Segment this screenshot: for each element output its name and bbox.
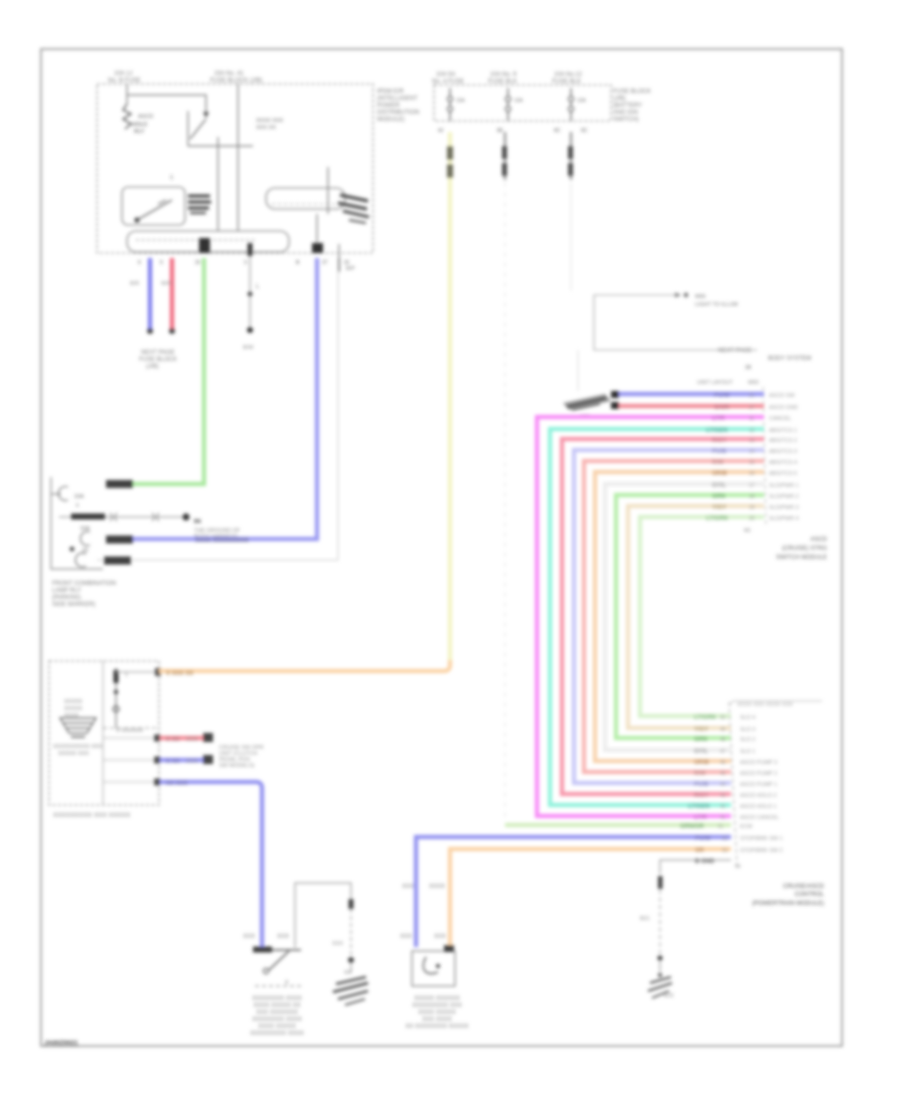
switch arm	[187, 111, 189, 146]
loop 8 green	[616, 495, 764, 738]
svg-text:6: 6	[138, 260, 141, 266]
actuator rounded box	[266, 188, 345, 209]
fuse 3 gray wire	[570, 132, 572, 180]
pump switch rounded box	[122, 187, 185, 225]
svg-text:(BATTERY: (BATTERY	[613, 103, 642, 109]
svg-text:OR: OR	[695, 848, 705, 854]
lower orange row to bottom switch	[450, 849, 731, 947]
stop lamp switch bar	[255, 949, 301, 951]
svg-text:XXXXXXXXX XXXX: XXXXXXXXX XXXX	[250, 1031, 304, 1037]
svg-text:XXX: XXX	[400, 934, 412, 940]
lower extra green row	[505, 823, 731, 827]
svg-text:10A: 10A	[74, 494, 84, 500]
svg-text:PU/B: PU/B	[694, 782, 709, 788]
svg-text:(CRUISE) STRG: (CRUISE) STRG	[782, 546, 827, 552]
svg-text:52: 52	[722, 836, 728, 842]
svg-text:XXX: XXX	[332, 941, 343, 947]
svg-text:17: 17	[749, 483, 755, 489]
svg-text:XXXXXXXX XXXX: XXXXXXXX XXXX	[252, 1017, 302, 1023]
svg-text:XXX: XXX	[186, 737, 198, 743]
svg-text:LT/GRN: LT/GRN	[706, 516, 728, 522]
yellow wire down	[448, 132, 452, 663]
svg-text:50: 50	[720, 715, 726, 721]
dashed box outline	[97, 84, 373, 253]
svg-text:ASCD PUMP 2: ASCD PUMP 2	[740, 771, 777, 777]
loop 10 palegreen	[640, 517, 764, 716]
svg-text:ASCD HOLD 1: ASCD HOLD 1	[740, 804, 777, 810]
svg-text:5C: 5C	[581, 128, 588, 134]
svg-text:SLD/PWR 1: SLD/PWR 1	[769, 483, 799, 489]
red stub wire	[160, 736, 205, 740]
svg-text:(J/B): (J/B)	[613, 96, 626, 102]
svg-text:27: 27	[322, 260, 328, 266]
periwinkle wire	[107, 258, 317, 539]
svg-text:XXXX XXX XXXX XXX: XXXX XXX XXXX XXX	[737, 702, 793, 708]
svg-text:OR/B: OR/B	[694, 760, 710, 766]
svg-text:18: 18	[749, 494, 755, 500]
hook connector green	[58, 487, 68, 501]
svg-text:GRN: GRN	[712, 494, 725, 500]
svg-text:FUSE BLK: FUSE BLK	[488, 79, 517, 85]
green wire from relay box	[107, 258, 204, 484]
svg-text:RLY: RLY	[134, 129, 145, 135]
svg-text:SLD 4: SLD 4	[740, 715, 755, 721]
blue stub wire	[160, 758, 205, 762]
svg-text:6E: 6E	[497, 128, 504, 134]
row blue u394	[619, 392, 764, 396]
svg-text:XXXXX XXX: XXXXX XXX	[58, 751, 89, 757]
svg-text:OR/B: OR/B	[712, 471, 728, 477]
svg-text:AND IGN: AND IGN	[613, 110, 638, 116]
svg-text:42: 42	[720, 804, 726, 810]
right interior switch	[115, 668, 117, 728]
svg-text:B/P: B/P	[346, 266, 355, 272]
fuse symbol 2	[507, 88, 509, 96]
svg-text:XXXX XXX: XXXX XXX	[256, 118, 284, 124]
ground symbol bottom right	[658, 973, 662, 977]
svg-text:XX XXXXXXXX XXXXX: XX XXXXXXXX XXXXX	[405, 1024, 468, 1030]
svg-text:POWER: POWER	[377, 103, 400, 109]
svg-text:46: 46	[720, 760, 726, 766]
svg-text:20: 20	[82, 548, 88, 554]
svg-text:53: 53	[722, 848, 728, 854]
svg-text:XX: XX	[344, 970, 351, 976]
svg-text:PU/W: PU/W	[695, 836, 711, 842]
svg-text:L: L	[256, 284, 259, 290]
dashed fuse box	[434, 85, 611, 121]
svg-text:B21: B21	[640, 916, 650, 922]
svg-text:PU/W: PU/W	[714, 393, 730, 399]
svg-text:Y/GY: Y/GY	[712, 505, 726, 511]
svg-text:M1: M1	[744, 528, 751, 534]
svg-text:UNIT LAYOUT: UNIT LAYOUT	[697, 380, 733, 386]
svg-text:ECM: ECM	[740, 824, 753, 830]
faint link down to connector	[577, 350, 579, 391]
svg-text:XXXXXXXXX XXX XXXXX: XXXXXXXXX XXX XXXXX	[53, 812, 131, 819]
svg-text:XX XXX: XX XXX	[166, 781, 188, 787]
svg-text:SLD/PWR 3: SLD/PWR 3	[769, 505, 799, 511]
svg-text:XXXX: XXXX	[429, 884, 445, 890]
wire from fuse down to coil	[126, 84, 128, 104]
svg-text:ASCD PUMP 3: ASCD PUMP 3	[740, 760, 777, 766]
svg-text:ASCD: ASCD	[138, 114, 153, 120]
svg-text:NEXT PAGE: NEXT PAGE	[141, 350, 175, 356]
svg-text:No. 4 FUSE: No. 4 FUSE	[432, 79, 464, 85]
svg-text:STOP/BRK SW 2: STOP/BRK SW 2	[740, 848, 783, 854]
svg-text:(INTELLIGENT: (INTELLIGENT	[377, 96, 418, 102]
dashed internal row	[103, 727, 156, 729]
svg-text:R/GY: R/GY	[712, 438, 727, 444]
svg-text:10A: 10A	[80, 526, 90, 532]
svg-text:X XXX XX: X XXX XX	[166, 671, 193, 677]
loop 5 salmon	[584, 461, 764, 772]
svg-text:FUSE BLK: FUSE BLK	[552, 79, 581, 85]
svg-text:ABS/TCS 1: ABS/TCS 1	[769, 428, 797, 434]
svg-text:ASCD SW: ASCD SW	[769, 393, 795, 399]
svg-text:XXX XXXXXXX: XXX XXXXXXX	[256, 1010, 298, 1016]
svg-text:45: 45	[720, 771, 726, 777]
svg-text:ABS/TCS 4: ABS/TCS 4	[769, 460, 797, 466]
svg-text:B6: B6	[194, 519, 201, 525]
svg-text:5: 5	[160, 260, 163, 266]
svg-text:XXXX XXXXX: XXXX XXXXX	[258, 1024, 296, 1030]
svg-text:FUSE BLOCK: FUSE BLOCK	[139, 357, 177, 363]
svg-text:20: 20	[749, 516, 755, 522]
svg-text:GRN: GRN	[694, 737, 707, 743]
orange wire out top	[116, 671, 159, 673]
chassis ground hatched blob	[336, 977, 366, 984]
svg-text:LT/GRN: LT/GRN	[694, 715, 716, 721]
svg-text:41: 41	[720, 815, 726, 821]
svg-text:LAMP RLY: LAMP RLY	[52, 588, 81, 594]
svg-text:LIGHT TO ILLUM: LIGHT TO ILLUM	[695, 302, 738, 308]
svg-text:ABS/TCS 5: ABS/TCS 5	[769, 471, 797, 477]
svg-text:XXXX XXXXXXXXX: XXXX XXXXXXXXX	[195, 538, 249, 544]
gray stub wire x=339	[338, 258, 340, 272]
wire loop	[594, 295, 757, 350]
svg-text:3: 3	[244, 260, 247, 266]
junction dot on bracket	[70, 547, 75, 552]
svg-text:SIDE MARKER): SIDE MARKER)	[52, 602, 95, 608]
thin wire with diode x=250	[248, 243, 253, 256]
svg-text:STOP/BRK SW 1: STOP/BRK SW 1	[740, 836, 783, 842]
svg-text:SLD 1: SLD 1	[740, 749, 755, 755]
svg-text:16: 16	[749, 471, 755, 477]
svg-text:R/GY: R/GY	[694, 793, 709, 799]
svg-text:B/W: B/W	[243, 345, 254, 351]
svg-text:SLD/PWR 2: SLD/PWR 2	[769, 494, 799, 500]
svg-text:Y/GY: Y/GY	[694, 727, 708, 733]
svg-text:XXX: XXX	[243, 934, 255, 940]
svg-text:DISTRIBUTION: DISTRIBUTION	[377, 110, 419, 116]
loop 9 tan	[628, 506, 764, 728]
svg-text:11: 11	[749, 416, 754, 422]
svg-text:FUSE BLOCK: FUSE BLOCK	[613, 89, 651, 95]
blue pin square	[312, 243, 323, 253]
motor blob	[340, 195, 368, 201]
svg-text:XXX XXXX: XXX XXXX	[422, 1017, 452, 1023]
fuse 2 gray wire	[504, 132, 506, 180]
svg-text:10A No.12: 10A No.12	[554, 72, 583, 78]
svg-text:10A 1J: 10A 1J	[114, 71, 132, 77]
blue wire going down	[160, 782, 262, 947]
loop 7 white-gray	[605, 484, 764, 750]
svg-text:M50: M50	[748, 380, 759, 386]
svg-text:XXX: XXX	[402, 884, 414, 890]
svg-text:X XX: X XX	[166, 759, 180, 765]
svg-text:49: 49	[720, 727, 726, 733]
svg-text:15A: 15A	[456, 98, 466, 104]
svg-text:No. B FUSE: No. B FUSE	[108, 78, 141, 84]
svg-text:ASCD HOLD 2: ASCD HOLD 2	[740, 793, 777, 799]
svg-text:CONTROL: CONTROL	[795, 892, 825, 898]
red wire down	[170, 258, 174, 329]
svg-text:SWITCH MODULE: SWITCH MODULE	[776, 555, 827, 561]
svg-text:ABS/TCS 3: ABS/TCS 3	[769, 449, 797, 455]
svg-text:28: 28	[745, 365, 751, 371]
bracket outline	[51, 477, 103, 569]
svg-text:12: 12	[749, 428, 755, 434]
svg-text:XXXX XXXXX XX: XXXX XXXXX XX	[253, 1003, 300, 1009]
svg-text:6: 6	[76, 503, 79, 509]
svg-text:ASCD PUMP 1: ASCD PUMP 1	[740, 782, 777, 788]
svg-text:R/W: R/W	[694, 771, 706, 777]
lower connector dashed edge	[729, 702, 737, 866]
fuse symbol 1	[449, 88, 451, 96]
long slider rounded box	[127, 231, 289, 252]
svg-text:IPDM E/R: IPDM E/R	[377, 89, 404, 95]
svg-text:(POWERTRAIN MODULE): (POWERTRAIN MODULE)	[752, 901, 824, 907]
svg-text:X XX: X XX	[166, 737, 180, 743]
svg-text:NEXT PAGE: NEXT PAGE	[718, 348, 752, 354]
svg-text:LT/GEN: LT/GEN	[688, 804, 710, 810]
svg-text:CRUISE/ASCD: CRUISE/ASCD	[783, 884, 825, 890]
svg-text:13: 13	[749, 438, 755, 444]
blue wire down to dots	[148, 258, 152, 329]
dashed box	[49, 661, 159, 805]
svg-text:FRONT COMBINATION: FRONT COMBINATION	[52, 581, 116, 587]
svg-text:B GND: B GND	[695, 859, 715, 865]
lower blue row to bottom switch	[416, 837, 731, 947]
svg-text:15A No. 41: 15A No. 41	[214, 71, 244, 77]
svg-text:4J: 4J	[438, 128, 444, 134]
loop 1 magenta	[537, 417, 764, 816]
svg-text:54: 54	[735, 864, 741, 870]
relay coil glyph	[123, 104, 131, 129]
brake pedal box	[412, 951, 455, 986]
loop 3 pink-red	[562, 439, 764, 794]
svg-text:XXXXX: XXXXX	[64, 706, 83, 712]
svg-text:10A 5A: 10A 5A	[436, 72, 455, 78]
svg-text:XXX: XXX	[434, 934, 446, 940]
svg-text:XXX: XXX	[277, 934, 289, 940]
vertical feed wires	[217, 137, 219, 231]
svg-text:XXXXX XXXXXX: XXXXX XXXXXX	[414, 996, 460, 1002]
svg-text:XXXXXXXXXX XXX: XXXXXXXXXX XXX	[53, 744, 103, 750]
svg-text:14: 14	[749, 449, 755, 455]
svg-text:15: 15	[749, 460, 755, 466]
loop 6 peach	[595, 472, 764, 761]
loop 4 periwinkle	[574, 450, 764, 783]
svg-text:PU/B: PU/B	[712, 449, 727, 455]
svg-text:43: 43	[720, 793, 726, 799]
svg-text:E21: E21	[664, 993, 674, 999]
svg-text:6C: 6C	[554, 128, 561, 134]
svg-text:ABS/TCS 2: ABS/TCS 2	[769, 438, 797, 444]
svg-text:44: 44	[720, 782, 726, 788]
row red u406	[619, 404, 764, 408]
lower gray row to ground	[660, 860, 731, 874]
svg-text:XXX XX: XXX XX	[256, 125, 276, 131]
svg-text:JA00Z0021: JA00Z0021	[44, 1040, 78, 1047]
svg-text:47: 47	[720, 749, 726, 755]
svg-text:XXXX XXXXX: XXXX XXXXX	[418, 1010, 456, 1016]
svg-text:SWITCH): SWITCH)	[613, 117, 639, 123]
right short pin stub	[338, 244, 340, 258]
upper connector dashed edge	[763, 387, 766, 525]
svg-text:CANCEL: CANCEL	[769, 416, 791, 422]
svg-text:XXXXX: XXXXX	[64, 699, 83, 705]
svg-text:1: 1	[125, 672, 128, 678]
svg-text:SLD 2: SLD 2	[740, 737, 755, 743]
svg-text:23: 23	[195, 260, 201, 266]
svg-text:XXXXXXXX XXXX: XXXXXXXX XXXX	[252, 996, 302, 1002]
pin squares	[611, 391, 619, 398]
svg-text:GRN/OR: GRN/OR	[680, 824, 705, 830]
spiral cable slanted connector blob	[563, 394, 611, 410]
internal rows	[103, 737, 156, 739]
svg-text:SW MODELS): SW MODELS)	[219, 763, 255, 769]
relay top wire	[127, 95, 206, 114]
svg-text:ASCD CANCEL: ASCD CANCEL	[740, 815, 779, 821]
svg-text:48: 48	[720, 737, 726, 743]
svg-text:X XXXXXX: X XXXXXX	[116, 728, 144, 734]
svg-text:SLD 3: SLD 3	[740, 727, 755, 733]
svg-text:HOLD: HOLD	[132, 122, 147, 128]
svg-text:ASCD: ASCD	[810, 537, 827, 543]
svg-text:G/OR: G/OR	[714, 405, 730, 411]
wire through actuator	[327, 167, 329, 214]
svg-text:10A No. 9: 10A No. 9	[490, 72, 517, 78]
svg-text:MODULE): MODULE)	[377, 117, 405, 123]
svg-text:ASCD GND: ASCD GND	[769, 405, 798, 411]
green pin square	[199, 238, 210, 253]
svg-text:GY/L: GY/L	[694, 749, 708, 755]
svg-text:XXX: XXX	[186, 759, 198, 765]
svg-text:19: 19	[749, 505, 755, 511]
svg-text:LT/R: LT/R	[694, 815, 708, 821]
svg-text:R/W: R/W	[712, 460, 724, 466]
svg-text:W/R: W/R	[161, 281, 172, 287]
svg-text:10A: 10A	[514, 98, 524, 104]
svg-text:LT/GEN: LT/GEN	[706, 428, 728, 434]
svg-text:10A: 10A	[577, 98, 587, 104]
svg-text:(J/B): (J/B)	[146, 364, 159, 370]
svg-text:M66: M66	[695, 294, 706, 300]
svg-text:GY/L: GY/L	[712, 483, 726, 489]
arrow diamond and dot	[675, 293, 681, 298]
svg-text:27: 27	[749, 405, 755, 411]
lower gray wire to x338	[97, 272, 338, 560]
dark hatched label blob	[188, 195, 210, 198]
gray loop from switch	[295, 883, 351, 948]
svg-text:SLD/PWR 4: SLD/PWR 4	[769, 516, 799, 522]
svg-text:1: 1	[170, 175, 173, 181]
svg-text:B/R: B/R	[130, 281, 139, 287]
svg-text:LT/R: LT/R	[712, 416, 726, 422]
svg-text:(PARKING,: (PARKING,	[52, 595, 83, 601]
svg-text:51: 51	[718, 824, 724, 830]
svg-text:FUSE BLOCK (J/B): FUSE BLOCK (J/B)	[210, 78, 262, 84]
svg-text:BODY SYSTEM: BODY SYSTEM	[768, 356, 811, 362]
loop 2 cyan	[550, 429, 764, 805]
svg-text:21: 21	[749, 393, 755, 399]
shielded middle wire	[59, 516, 183, 518]
svg-text:XXXXXXXXX XXX: XXXXXXXXX XXX	[412, 1003, 462, 1009]
fuse symbol 3	[570, 88, 572, 96]
